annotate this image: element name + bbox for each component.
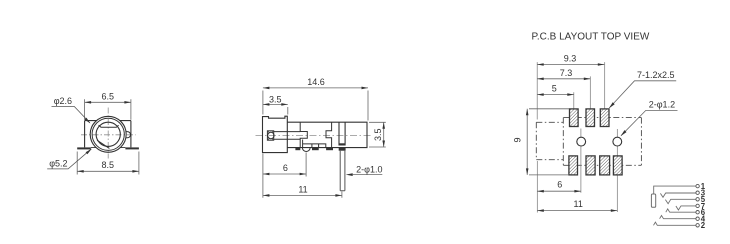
- bottom pad 4: [613, 156, 622, 175]
- svg-text:5: 5: [552, 84, 557, 94]
- outer circle: [90, 116, 126, 152]
- svg-text:7-1.2x2.5: 7-1.2x2.5: [637, 70, 675, 80]
- pin cap: [339, 148, 346, 151]
- wire pin7: [676, 206, 696, 210]
- label 7-1.2x2.5 leader: [609, 70, 676, 108]
- wire pin2: [654, 222, 696, 225]
- pin numbers: [701, 182, 706, 230]
- bottom pocket: [303, 140, 326, 148]
- svg-text:6: 6: [283, 163, 288, 173]
- svg-text:9: 9: [513, 137, 523, 142]
- top pad 3: [600, 109, 609, 127]
- wire pin6: [666, 209, 696, 212]
- front view flange bar: [77, 147, 139, 149]
- side view centerline: [256, 134, 374, 136]
- footprint outline dash-dot: [536, 118, 641, 166]
- bottom pad 2: [586, 156, 595, 175]
- wire pin1: [654, 186, 696, 194]
- top pad 2: [586, 109, 595, 127]
- svg-text:P.C.B LAYOUT TOP VIEW: P.C.B LAYOUT TOP VIEW: [532, 32, 650, 43]
- bottom pad 1: [569, 156, 578, 175]
- bottom pad 3: [600, 156, 610, 175]
- svg-text:14.6: 14.6: [307, 77, 325, 87]
- wire pin3: [660, 193, 696, 197]
- front view body square: [85, 121, 131, 148]
- svg-text:φ5.2: φ5.2: [49, 159, 67, 169]
- dimension 14.6: [263, 77, 368, 121]
- dimension 3.5 right vertical: [369, 122, 386, 147]
- dimension 6.5: [85, 91, 131, 119]
- svg-text:9.3: 9.3: [564, 54, 577, 64]
- dimension 6 pcb: [537, 180, 581, 193]
- wire pin5: [665, 199, 696, 203]
- side flange plate: [263, 116, 288, 152]
- side extension line left: [262, 154, 264, 198]
- side barrel corner ticks: [268, 131, 273, 139]
- side body outline: [287, 122, 367, 147]
- side barrel square: [267, 131, 273, 140]
- label 2-phi1.2 leader: [621, 99, 678, 136]
- svg-text:11: 11: [298, 184, 307, 194]
- svg-text:3.5: 3.5: [269, 95, 282, 105]
- svg-text:6.5: 6.5: [102, 91, 115, 101]
- dimension 5: [537, 84, 574, 96]
- svg-text:2: 2: [701, 221, 706, 230]
- switch slot: [339, 122, 345, 145]
- dimension 3.5 top: [263, 95, 288, 115]
- ring circle: [92, 118, 124, 150]
- pad column extension lines: [537, 62, 617, 212]
- dimension 8.5: [77, 152, 139, 175]
- dimension 11 pcb: [537, 199, 617, 212]
- svg-text:2-φ1.0: 2-φ1.0: [356, 164, 382, 174]
- terminal stub C: [326, 148, 333, 151]
- svg-text:2-φ1.2: 2-φ1.2: [649, 99, 675, 109]
- svg-text:7.3: 7.3: [560, 68, 573, 78]
- front view centerline vertical: [107, 108, 109, 159]
- left wall and tab: [300, 122, 307, 147]
- dimension 9.3: [537, 54, 604, 66]
- side barrel circle: [268, 132, 274, 138]
- svg-text:φ2.6: φ2.6: [54, 96, 72, 106]
- dimension 6 bottom: [263, 153, 306, 177]
- hole right: [613, 137, 622, 146]
- inner circle: [96, 122, 120, 146]
- wire hook: [302, 148, 310, 152]
- label phi2.6 leader: [52, 96, 91, 124]
- pin legs: [340, 151, 345, 191]
- wire pin4: [660, 216, 696, 219]
- right bump: [126, 132, 130, 138]
- svg-text:6: 6: [557, 180, 562, 190]
- dimension 7.3: [537, 68, 590, 80]
- side barrel tube lines: [274, 132, 301, 140]
- label 2-phi1.0 leader: [346, 164, 383, 176]
- svg-text:3.5: 3.5: [373, 128, 383, 141]
- sleeve symbol: [651, 194, 655, 207]
- terminal circles: [696, 184, 699, 227]
- dimension 9 left vertical: [513, 109, 569, 175]
- svg-text:11: 11: [574, 199, 583, 209]
- hole left: [577, 137, 586, 146]
- front view centerline horizontal: [81, 134, 136, 136]
- inner tab chord: [99, 125, 119, 127]
- terminal stub A: [295, 148, 300, 151]
- front view flange thin lines: [91, 147, 126, 149]
- dimension 11 bottom: [263, 184, 342, 198]
- terminal stub B: [312, 148, 319, 151]
- right wall and tab: [326, 122, 332, 147]
- svg-text:8.5: 8.5: [101, 160, 114, 170]
- inner bottom chord: [97, 140, 109, 148]
- label phi5.2 leader: [47, 149, 92, 169]
- top pad 1: [570, 109, 579, 127]
- slot dark bar: [339, 143, 344, 145]
